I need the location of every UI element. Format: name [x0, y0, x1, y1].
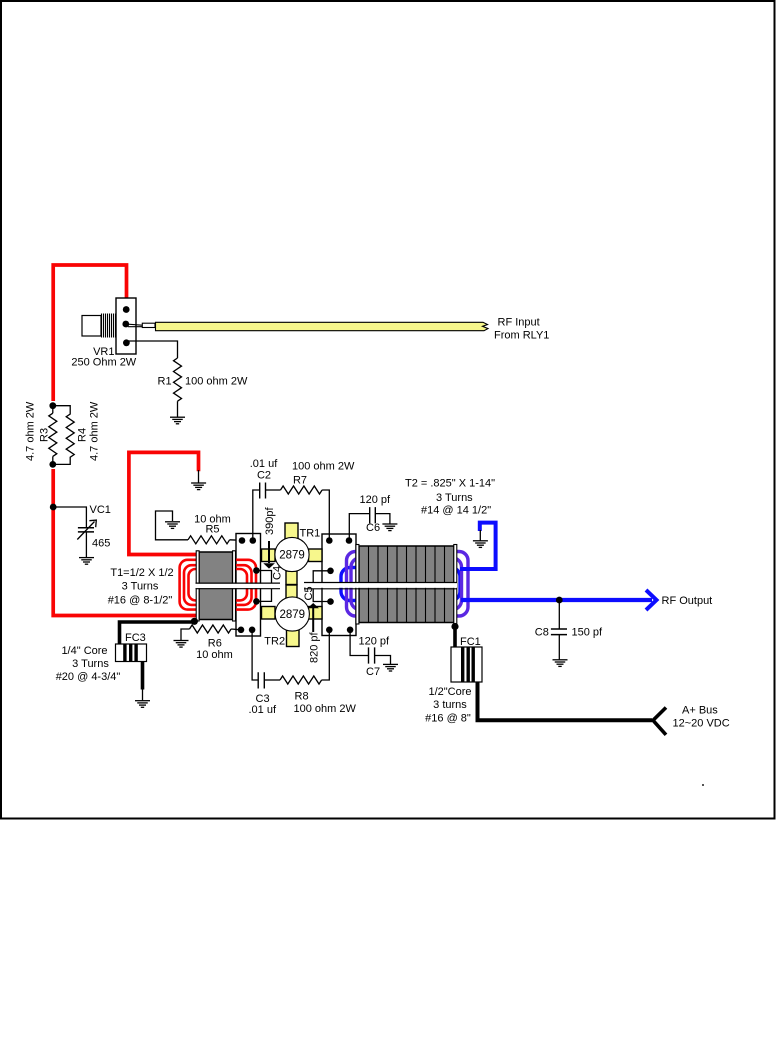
resistor R6 — [190, 625, 232, 633]
svg-text:10 ohm: 10 ohm — [196, 649, 233, 661]
ferrite choke FC1 — [451, 647, 482, 682]
node junction (T2 DC feed) — [451, 623, 458, 630]
center tab upper — [286, 571, 297, 585]
svg-text:TR1: TR1 — [300, 528, 321, 540]
ground (VC1) — [79, 557, 94, 559]
svg-text:A+ Bus: A+ Bus — [682, 705, 718, 717]
capacitor VC1 plates — [78, 528, 94, 532]
svg-text:2879: 2879 — [280, 609, 306, 621]
svg-text:2879: 2879 — [279, 550, 305, 562]
T2 purple winding inner — [351, 558, 462, 610]
ferrite choke FC3 — [116, 644, 147, 662]
resistor R5 — [188, 536, 230, 544]
RF input coax strip — [156, 322, 489, 330]
wire red left vertical to T1 — [53, 469, 197, 616]
T1 winding loop outer — [180, 560, 256, 610]
plate pin dots — [238, 537, 354, 633]
wire FC3 ground stem — [142, 690, 144, 701]
820 pf pointer arrow — [312, 607, 314, 632]
wire C5 top lead — [313, 571, 330, 583]
wire R3 top lead — [52, 406, 54, 414]
node junction top (R3/R4) — [49, 402, 56, 409]
wire C4 top lead — [256, 571, 271, 584]
wire stem to ground (red hook) — [198, 470, 200, 483]
svg-text:150 pf: 150 pf — [572, 626, 604, 638]
svg-text:3 Turns: 3 Turns — [122, 581, 159, 593]
ground (red hook) — [191, 482, 206, 484]
svg-text:465: 465 — [92, 537, 110, 549]
TR2 left tab — [262, 607, 276, 620]
wiper terminal lug — [142, 323, 155, 327]
wire R7 to right plate — [322, 490, 329, 540]
TR2 right tab — [309, 607, 323, 620]
svg-text:3 Turns: 3 Turns — [72, 658, 109, 670]
stray dot — [702, 784, 704, 786]
wire C8 bottom lead — [558, 635, 560, 660]
T1 core left cap — [196, 551, 199, 621]
wire C7 left lead — [350, 630, 368, 656]
wire RF output line — [461, 598, 652, 602]
wire FC1 to A+ bus — [478, 682, 653, 720]
svg-text:120 pf: 120 pf — [359, 636, 391, 648]
svg-text:100 ohm 2W: 100 ohm 2W — [292, 461, 355, 473]
T2 core left cap — [356, 545, 359, 625]
capacitor C8 plates — [551, 629, 567, 635]
wire R8 to right plate — [322, 630, 330, 680]
T1 center strap band — [196, 584, 281, 589]
svg-text:RF Output: RF Output — [662, 595, 713, 607]
wire C6 right lead — [375, 514, 390, 524]
svg-text:4.7 ohm 2W: 4.7 ohm 2W — [25, 401, 37, 461]
svg-text:#16 @ 8-1/2": #16 @ 8-1/2" — [108, 595, 173, 607]
capacitor C7 plates — [369, 647, 375, 663]
resistor R4 with leads — [53, 406, 74, 465]
svg-text:3 Turns: 3 Turns — [436, 492, 473, 504]
wire C5 bottom lead — [313, 589, 330, 602]
390pf pointer arrow — [268, 541, 270, 563]
wire R1 to ground — [177, 401, 179, 417]
svg-text:C5: C5 — [303, 586, 315, 600]
svg-text:R5: R5 — [205, 524, 219, 536]
wire C3 left lead — [252, 630, 258, 680]
svg-text:FC1: FC1 — [460, 636, 481, 648]
left mounting plate — [236, 534, 261, 637]
svg-text:1/4" Core: 1/4" Core — [61, 645, 107, 657]
wire C7 right lead — [375, 656, 391, 665]
svg-text:RF Input: RF Input — [498, 317, 540, 329]
svg-text:100 ohm 2W: 100 ohm 2W — [294, 703, 357, 715]
TR1 top tab — [285, 523, 298, 539]
border frame — [1, 1, 775, 819]
svg-text:R6: R6 — [208, 638, 222, 650]
wire C3 to R8 — [264, 679, 280, 681]
T2 core right cap — [454, 545, 457, 625]
A+ bus fork arrowhead — [653, 708, 666, 735]
svg-text:120 pf: 120 pf — [360, 494, 392, 506]
node junction (T1 DC feed) — [191, 618, 198, 625]
wire C8 top lead — [558, 600, 560, 629]
wire VC1 top lead — [53, 507, 86, 527]
svg-text:1/2"Core: 1/2"Core — [428, 686, 471, 698]
wire R5 to plate pin — [230, 539, 242, 542]
svg-text:C7: C7 — [366, 666, 380, 678]
center tab lower — [286, 585, 297, 599]
wire R5 ground hook — [156, 511, 189, 540]
svg-text:TR2: TR2 — [264, 636, 285, 648]
RF output arrowhead — [646, 590, 657, 610]
wire R6 ground hook — [181, 629, 190, 640]
svg-text:#16 @ 8": #16 @ 8" — [425, 713, 471, 725]
resistor R8 — [280, 676, 322, 684]
svg-text:VC1: VC1 — [90, 504, 111, 516]
wire T2 to FC1 — [453, 627, 457, 648]
VR1 pin 1 — [123, 306, 130, 313]
ground (R6) — [174, 640, 189, 642]
VR1 pin 3 — [123, 339, 130, 346]
T2 center strap band — [304, 583, 457, 588]
transistor TR1 (2879) — [275, 537, 309, 571]
svg-text:390pf: 390pf — [264, 507, 276, 535]
ground (C6) — [382, 523, 397, 525]
wire DC feed to FC3 — [120, 622, 196, 644]
potentiometer VR1 body — [116, 298, 136, 354]
transformer T2 core — [359, 546, 454, 623]
node junction (C8 tap) — [556, 597, 563, 604]
capacitor C2 plates — [260, 483, 266, 499]
capacitor C6 plates — [370, 507, 376, 523]
wire red ground hook — [129, 452, 199, 554]
resistor R7 — [281, 486, 323, 494]
wire VC1 bottom lead — [85, 532, 87, 557]
svg-text:820 pf: 820 pf — [309, 631, 321, 663]
svg-text:#20 @ 4-3/4": #20 @ 4-3/4" — [56, 671, 121, 683]
wire stem to ground (blue) — [479, 530, 481, 541]
TR1 left tab — [262, 549, 276, 562]
TR2 bottom tab — [287, 630, 300, 647]
T1 winding loop middle — [184, 565, 252, 605]
wire red main input — [53, 265, 126, 401]
svg-text:.01 uf: .01 uf — [249, 704, 277, 716]
wire C2 to R7 — [266, 489, 281, 491]
svg-text:12~20 VDC: 12~20 VDC — [673, 718, 730, 730]
VR1 shaft — [82, 316, 101, 337]
svg-text:R3: R3 — [39, 428, 51, 442]
transformer T1 core — [199, 552, 233, 620]
ground (FC3) — [135, 700, 150, 702]
T2 blue winding loop — [341, 568, 460, 601]
ground (R5) — [165, 521, 180, 523]
T1 winding loop inner — [189, 569, 248, 600]
capacitor C3 plates — [258, 672, 264, 688]
T2 core bead segments — [369, 546, 445, 623]
resistor R1 — [174, 358, 182, 401]
svg-text:100 ohm 2W: 100 ohm 2W — [185, 376, 248, 388]
VR1 shaft threads — [102, 314, 116, 338]
wire R6 to plate pin — [231, 628, 241, 631]
svg-text:T1=1/2 X 1/2: T1=1/2 X 1/2 — [110, 567, 173, 579]
wire blue ground stub — [460, 523, 496, 569]
ground (C8) — [553, 659, 568, 661]
resistor R3 — [49, 413, 57, 456]
svg-text:R4: R4 — [77, 428, 89, 442]
svg-text:T2 = .825" X 1-14": T2 = .825" X 1-14" — [405, 478, 495, 490]
wire C2 left lead — [253, 490, 259, 540]
wire R3 bottom lead — [52, 456, 54, 464]
svg-text:C6: C6 — [366, 522, 380, 534]
wire VR1 pin3 to R1 — [126, 341, 177, 358]
VC1 variable arrow — [77, 520, 96, 539]
svg-text:#14 @ 14 1/2": #14 @ 14 1/2" — [421, 505, 491, 517]
svg-text:4.7 ohm 2W: 4.7 ohm 2W — [89, 401, 101, 461]
svg-text:.01 uf: .01 uf — [250, 458, 278, 470]
svg-text:From RLY1: From RLY1 — [494, 330, 549, 342]
wire C4 bottom lead — [256, 589, 271, 602]
node junction (VC1 tap) — [50, 504, 57, 511]
svg-text:R7: R7 — [293, 475, 307, 487]
right mounting plate — [322, 534, 356, 636]
svg-text:R1: R1 — [158, 376, 172, 388]
node junction bottom (R3/R4) — [49, 461, 56, 468]
svg-text:C4: C4 — [272, 566, 284, 580]
svg-text:R8: R8 — [295, 691, 309, 703]
wire C6 left lead — [349, 514, 369, 540]
TR1 right tab — [309, 549, 323, 562]
ground (C7) — [383, 663, 398, 665]
T1 core right cap — [233, 551, 236, 621]
VR1 pin 2 (wiper) — [122, 321, 129, 328]
svg-text:FC3: FC3 — [125, 632, 146, 644]
svg-text:3 turns: 3 turns — [433, 699, 467, 711]
transistor TR2 (2879) — [275, 597, 309, 631]
T2 purple winding outer — [347, 552, 469, 617]
wire wiper lead — [128, 324, 143, 327]
wire FC3 to ground (thick) — [141, 662, 145, 690]
svg-text:250 Ohm 2W: 250 Ohm 2W — [71, 357, 136, 369]
ground (blue stub) — [473, 540, 488, 542]
ground (R1) — [170, 416, 185, 418]
svg-text:C8: C8 — [535, 626, 549, 638]
svg-text:C2: C2 — [257, 470, 271, 482]
